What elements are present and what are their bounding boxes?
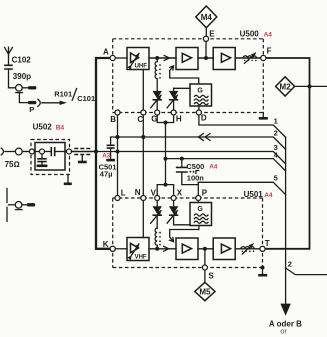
pin B bbox=[115, 110, 120, 115]
wire UHF box to pin C bbox=[142, 70, 144, 111]
svg-text:N: N bbox=[135, 188, 141, 197]
tuning voltage bus vertical bbox=[285, 137, 287, 304]
wire pin N to VHF box bbox=[142, 201, 144, 238]
filter G lead to pin D bbox=[198, 106, 200, 110]
connector plug P bbox=[28, 99, 40, 106]
pin P bbox=[196, 196, 201, 201]
svg-text:100n: 100n bbox=[187, 174, 205, 183]
dipole VHF aerial symbol bbox=[7, 189, 15, 222]
wire F to right edge and down to T bbox=[265, 58, 310, 249]
connector plug (dipole) bbox=[22, 203, 35, 206]
tunable IF coil at F bbox=[243, 53, 256, 63]
svg-text:C: C bbox=[137, 115, 143, 124]
svg-text:H: H bbox=[176, 115, 182, 124]
U502 inner box bbox=[35, 143, 65, 171]
pin S bbox=[202, 265, 207, 270]
VHF bandpass filter box G bbox=[190, 203, 212, 226]
measuring point M2 diamond bbox=[276, 77, 295, 96]
series capacitor inside U502 bbox=[45, 147, 67, 156]
svg-text:U501: U501 bbox=[244, 190, 264, 199]
svg-text:390p: 390p bbox=[13, 72, 31, 81]
UHF input stage box bbox=[127, 48, 149, 70]
wire U502 output bbox=[72, 151, 97, 153]
junction node line4 bbox=[164, 157, 168, 161]
svg-text:M4: M4 bbox=[201, 13, 213, 22]
svg-text:A3: A3 bbox=[102, 153, 110, 160]
wire pins V,X common bbox=[157, 185, 173, 196]
wire between amps bbox=[198, 57, 213, 59]
wire amp2 to coil bbox=[235, 57, 261, 59]
75 ohm input socket bbox=[1, 148, 22, 155]
measuring point M4 diamond bbox=[196, 6, 217, 36]
wire pin P stub bbox=[197, 182, 199, 195]
wire amp2 to T coil bbox=[235, 248, 260, 250]
svg-text:L: L bbox=[121, 188, 126, 197]
pin N bbox=[141, 196, 146, 201]
tunable IF coil at T bbox=[241, 244, 254, 254]
junction node E feed bbox=[204, 56, 208, 60]
UHF AFC feedback wire with arrow bbox=[170, 66, 199, 84]
wire A to UHF box bbox=[115, 57, 127, 59]
signal direction chevron bbox=[164, 246, 169, 251]
shunt capacitor to chassis inside U502 bbox=[37, 154, 48, 166]
svg-text:C102: C102 bbox=[12, 55, 32, 64]
svg-text:D: D bbox=[201, 113, 207, 122]
wire pins G,H common bbox=[157, 115, 173, 123]
wire to R101/C101 with arrow bbox=[42, 101, 67, 105]
wire varicap H to filter G bbox=[174, 87, 190, 89]
junction node S feed bbox=[203, 247, 207, 251]
junction node VHF coil bbox=[155, 247, 159, 251]
selection marker dots bbox=[189, 171, 191, 173]
capacitor C102 bbox=[4, 65, 15, 88]
connector plug (to tuner) bbox=[22, 86, 36, 89]
wire M2 to vertical and right edge bbox=[295, 85, 327, 87]
connector socket (dipole) bbox=[15, 202, 22, 210]
junction node G-H bbox=[164, 121, 168, 125]
UHF amplifier 2 bbox=[213, 48, 235, 70]
svg-text:B: B bbox=[110, 115, 116, 124]
svg-text:E: E bbox=[209, 29, 215, 38]
pin H bbox=[171, 110, 176, 115]
junction node M2 bbox=[308, 84, 312, 88]
varicap diode at pin V bbox=[151, 201, 162, 229]
node circle inside U502 bbox=[40, 149, 45, 154]
signal direction chevron bbox=[164, 56, 169, 61]
ground at U500 right corner bbox=[259, 113, 268, 119]
varicap diode at pin H bbox=[167, 88, 178, 110]
svg-text:2: 2 bbox=[274, 128, 278, 137]
junction node bbox=[155, 56, 159, 60]
pin A bbox=[110, 55, 115, 60]
bus line 4 from G-H wire bbox=[166, 159, 286, 171]
pin X bbox=[171, 196, 176, 201]
capacitor C501 bbox=[106, 137, 117, 160]
svg-text:U500: U500 bbox=[240, 30, 260, 39]
svg-text:C101: C101 bbox=[77, 94, 95, 103]
thick aerial feed wire A-K loop bbox=[96, 58, 110, 249]
direction chevrons on line 2 bbox=[198, 134, 210, 141]
svg-text:B4: B4 bbox=[56, 124, 65, 131]
wire bbox=[34, 151, 39, 153]
antenna UHF aerial symbol bbox=[5, 47, 13, 64]
pin V bbox=[155, 196, 160, 201]
feedthrough capacitor on 75ohm line bbox=[74, 149, 90, 163]
svg-text:1: 1 bbox=[274, 116, 278, 125]
svg-text:F: F bbox=[267, 47, 272, 56]
VHF amplifier 1 bbox=[176, 238, 198, 260]
varicap diode at pin X bbox=[167, 201, 190, 225]
VHF amplifier 2 bbox=[213, 238, 235, 260]
svg-text:G: G bbox=[197, 206, 203, 213]
wire between VHF amps bbox=[198, 248, 213, 250]
wire UHF out bbox=[149, 57, 176, 59]
UHF bandpass filter box G bbox=[190, 84, 212, 106]
VHF osc coil bbox=[155, 228, 161, 249]
svg-text:U502: U502 bbox=[33, 123, 53, 132]
filter G lead to pin P bbox=[197, 201, 199, 203]
pin F bbox=[261, 55, 266, 60]
wire to U502 bbox=[22, 151, 29, 153]
junction node line2-C bbox=[141, 135, 145, 139]
bus branch 2 bottom bbox=[286, 268, 327, 275]
connector socket (aerial) bbox=[16, 85, 23, 93]
svg-text:P: P bbox=[202, 189, 208, 198]
U502 filter unit dashed box bbox=[31, 140, 70, 175]
pin circle U502 output bbox=[67, 149, 72, 154]
wire to pin S bbox=[204, 249, 206, 265]
svg-text:A4: A4 bbox=[264, 32, 273, 39]
capacitor C500 bbox=[176, 157, 198, 185]
svg-text:A4: A4 bbox=[209, 164, 217, 171]
junction node line2-B bbox=[116, 135, 120, 139]
pin D bbox=[196, 110, 201, 115]
VHF input stage box bbox=[127, 238, 149, 261]
ground below U502 bbox=[64, 175, 72, 184]
varicap diode at pin G bbox=[151, 79, 162, 110]
wire K to VHF box bbox=[115, 248, 127, 250]
junction node line3 feed bbox=[94, 150, 98, 154]
wire link to plug P bbox=[19, 93, 28, 103]
wire pin C to pin N bbox=[142, 115, 144, 196]
svg-text:X: X bbox=[177, 188, 183, 197]
bus line 5 from pin P bbox=[198, 182, 285, 194]
svg-text:G: G bbox=[151, 115, 157, 124]
wire pin B to pin L bbox=[117, 115, 119, 196]
svg-text:K: K bbox=[103, 240, 109, 249]
pin circle U502 input bbox=[29, 149, 34, 154]
U501 VHF tuner IC dashed box bbox=[113, 198, 263, 268]
pin E bbox=[203, 36, 208, 41]
wire E to amps bbox=[205, 41, 207, 58]
svg-text:S: S bbox=[208, 271, 214, 280]
UHF amplifier 1 bbox=[176, 48, 198, 70]
svg-text:M2: M2 bbox=[280, 82, 292, 91]
U500 UHF tuner IC dashed box bbox=[113, 39, 264, 113]
pin C bbox=[141, 110, 146, 115]
svg-text:or: or bbox=[280, 326, 287, 335]
pin G bbox=[155, 110, 160, 115]
pin L bbox=[115, 196, 120, 201]
svg-text:75Ω: 75Ω bbox=[5, 160, 20, 169]
svg-text:UHF: UHF bbox=[135, 64, 148, 70]
bus line 1 from pin D bbox=[199, 115, 286, 137]
bus arrowhead bbox=[280, 304, 290, 316]
svg-text:C500: C500 bbox=[186, 162, 204, 171]
svg-text:G: G bbox=[197, 87, 203, 94]
wire G-H bar down to V-X bar bbox=[165, 123, 167, 185]
svg-text:A: A bbox=[103, 48, 109, 57]
wire VHF out bbox=[149, 248, 176, 250]
UHF osc coil bbox=[155, 58, 161, 79]
svg-text:VHF: VHF bbox=[135, 254, 147, 260]
svg-text:A4: A4 bbox=[264, 192, 273, 199]
junction node line3-B bbox=[116, 150, 120, 154]
bus line 2 from pins B,C bbox=[118, 137, 286, 149]
svg-text:P: P bbox=[29, 105, 34, 114]
measuring point M5 diamond bbox=[195, 270, 215, 301]
junction node V-X bbox=[164, 183, 168, 187]
pin K bbox=[110, 246, 115, 251]
svg-text:2: 2 bbox=[288, 259, 292, 268]
label R101/C101 bbox=[54, 89, 95, 103]
VHF AFC feedback wire with arrow bbox=[170, 226, 199, 242]
pin T bbox=[260, 246, 265, 251]
svg-text:47µ: 47µ bbox=[100, 169, 113, 178]
svg-text:T: T bbox=[265, 239, 270, 248]
ground at U501 right corner bbox=[258, 266, 267, 276]
svg-text:M5: M5 bbox=[199, 287, 211, 296]
svg-text:V: V bbox=[151, 188, 157, 197]
svg-text:5: 5 bbox=[274, 174, 278, 183]
svg-text:R101: R101 bbox=[54, 90, 72, 99]
bus line 3 from 75ohm feed bbox=[96, 152, 286, 164]
